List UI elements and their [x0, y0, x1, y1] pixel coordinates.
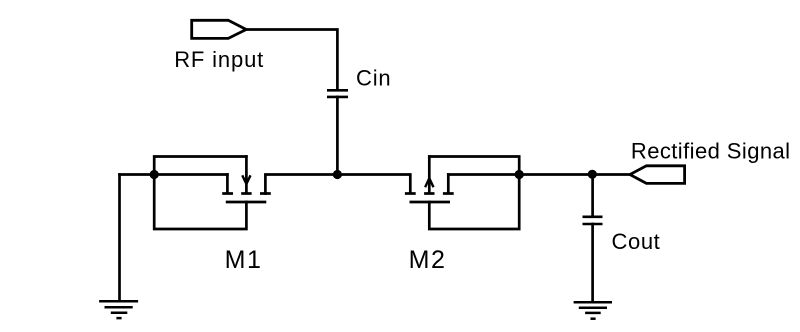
svg-text:Rectified Signal: Rectified Signal — [631, 139, 791, 164]
transistor M2 — [405, 157, 454, 203]
node C: M2 gate junction — [515, 170, 524, 179]
wire Cout to right ground — [591, 224, 594, 302]
wire M2 bulk top loop — [429, 157, 519, 175]
capacitor Cout — [583, 217, 603, 224]
node D: output node — [588, 170, 597, 179]
svg-text:Cout: Cout — [612, 229, 661, 254]
M1 drain contact — [260, 192, 271, 195]
M2 bulk lead — [428, 157, 431, 193]
wire output node to Cout — [591, 175, 594, 217]
wire Cin bottom to center node — [336, 97, 339, 175]
wire M2 gate bottom loop — [429, 175, 519, 230]
M1 bulk contact — [241, 192, 251, 195]
M2 drain lead — [447, 175, 450, 193]
M2 bulk arrow — [426, 178, 433, 186]
svg-text:M1: M1 — [225, 246, 263, 274]
M1 bulk lead — [245, 157, 248, 193]
port Rectified Signal — [630, 166, 685, 184]
svg-text:RF input: RF input — [174, 47, 264, 72]
svg-text:M2: M2 — [409, 246, 447, 274]
wire center node to M2 source — [337, 175, 410, 193]
M2 bulk contact — [424, 192, 434, 195]
M1 bulk arrow — [243, 176, 250, 184]
node A: M1 gate junction — [150, 170, 159, 179]
wire M1 drain to center node — [265, 175, 337, 194]
wire output node to port — [592, 173, 630, 176]
M2 drain contact — [443, 192, 454, 195]
capacitor Cin — [327, 90, 348, 97]
M2 gate plate — [410, 201, 451, 204]
M1 source lead — [226, 175, 229, 193]
wire M1 gate bottom loop — [154, 175, 246, 230]
wire RF input port to Cin top — [246, 30, 337, 91]
ground (right) — [574, 302, 612, 319]
M1 gate plate — [226, 201, 266, 204]
ground (left) — [99, 301, 138, 318]
wire main rail left to M1 source — [120, 173, 228, 176]
wire left ground riser — [118, 175, 121, 302]
transistor M1 — [222, 157, 271, 203]
svg-text:Cin: Cin — [356, 65, 391, 90]
M2 source contact — [405, 192, 416, 195]
M1 source contact — [222, 192, 233, 195]
wire M2 drain to output rail — [448, 173, 592, 176]
wire M1 bulk top loop — [154, 157, 246, 175]
port RF input — [192, 20, 247, 38]
node B: center node — [333, 170, 342, 179]
